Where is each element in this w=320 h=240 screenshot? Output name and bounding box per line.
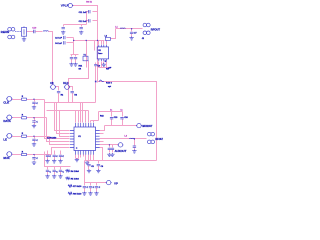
svg-text:RFOUT: RFOUT xyxy=(151,28,161,32)
svg-text:MUX: MUX xyxy=(3,156,9,160)
svg-text:R8 5k10: R8 5k10 xyxy=(73,194,82,196)
svg-text:C8: C8 xyxy=(50,81,54,85)
svg-text:DLD: DLD xyxy=(63,81,68,85)
svg-text:R10 0: R10 0 xyxy=(106,83,113,85)
svg-text:ADF4350: ADF4350 xyxy=(47,136,57,139)
svg-text:R6 51: R6 51 xyxy=(86,2,93,4)
svg-text:opt: opt xyxy=(108,85,111,88)
svg-text:REFIN: REFIN xyxy=(1,30,9,34)
svg-text:C2 1nF: C2 1nF xyxy=(55,38,63,40)
svg-text:R7 5k10: R7 5k10 xyxy=(73,186,82,188)
svg-text:C11 1nF: C11 1nF xyxy=(79,12,88,14)
svg-text:R5 10k0: R5 10k0 xyxy=(71,179,80,181)
svg-text:DATA: DATA xyxy=(3,119,10,123)
svg-text:C12 1nF: C12 1nF xyxy=(79,21,88,23)
svg-text:LE: LE xyxy=(3,138,7,142)
svg-text:VP: VP xyxy=(114,181,118,185)
svg-text:MUXOUT: MUXOUT xyxy=(142,126,153,128)
svg-text:RFOUT: RFOUT xyxy=(155,138,163,141)
svg-text:C9: C9 xyxy=(98,66,100,68)
svg-text:R4 10k0: R4 10k0 xyxy=(71,170,80,173)
svg-text:C4 1nF: C4 1nF xyxy=(55,42,63,45)
svg-text:AUXOUT: AUXOUT xyxy=(115,149,127,153)
svg-text:VPLF: VPLF xyxy=(61,4,69,8)
svg-text:C16: C16 xyxy=(124,117,127,119)
svg-text:C15: C15 xyxy=(114,117,117,119)
svg-text:CLK: CLK xyxy=(3,101,9,105)
